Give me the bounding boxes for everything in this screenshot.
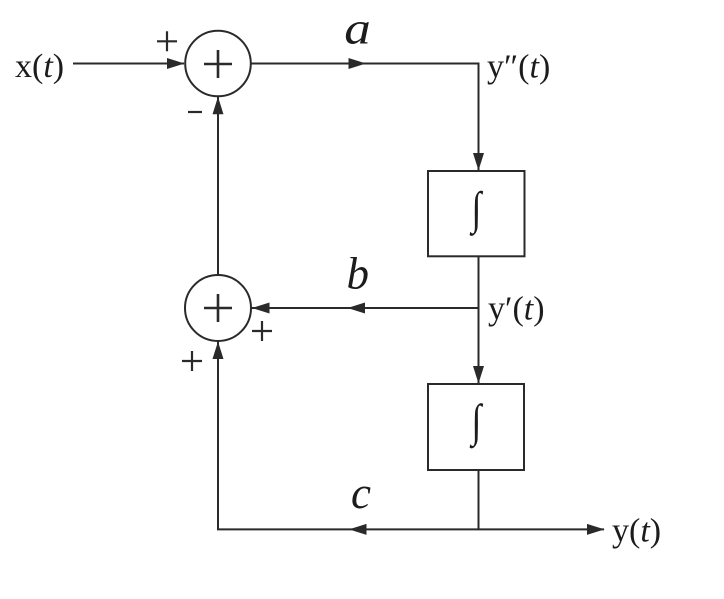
svg-text:b: b [347, 249, 370, 299]
svg-text:y(t): y(t) [612, 513, 661, 550]
svg-text:y″(t): y″(t) [487, 49, 550, 86]
svg-text:x(t): x(t) [15, 48, 64, 85]
svg-text:c: c [351, 468, 371, 518]
svg-text:y′(t): y′(t) [488, 291, 545, 328]
svg-text:a: a [344, 3, 371, 53]
